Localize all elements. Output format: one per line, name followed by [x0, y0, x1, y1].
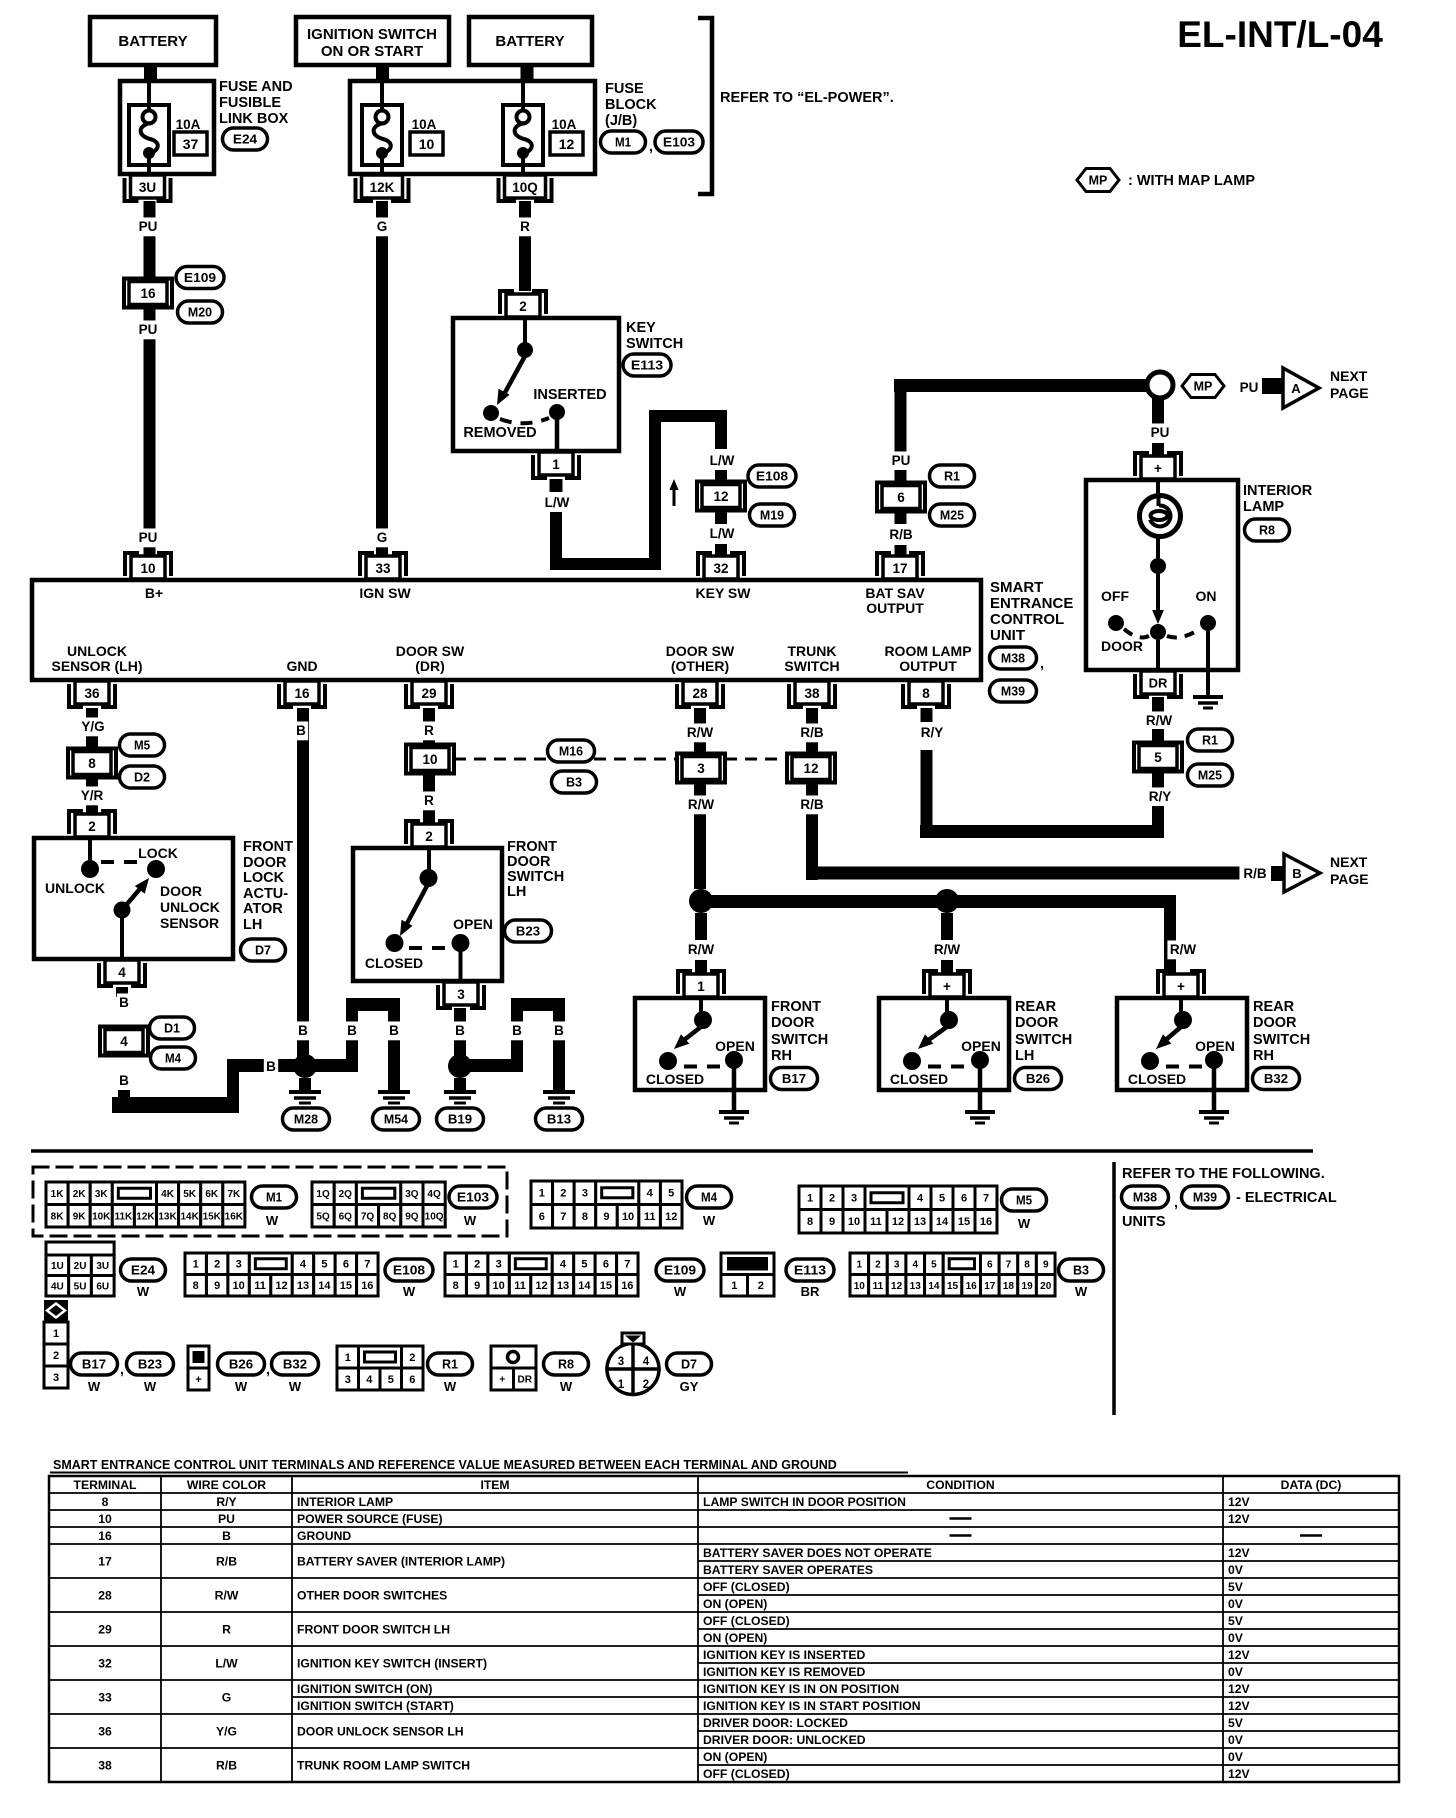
svg-text:12V: 12V [1228, 1495, 1251, 1509]
svg-text:R: R [520, 219, 530, 234]
svg-text:FRONT: FRONT [243, 839, 293, 855]
svg-text:DOOR: DOOR [1253, 1015, 1297, 1031]
svg-text:GND: GND [286, 658, 317, 674]
svg-text:,: , [649, 138, 653, 154]
svg-text:10: 10 [98, 1512, 112, 1526]
svg-text:11: 11 [254, 1280, 266, 1292]
svg-text:R/Y: R/Y [1149, 789, 1172, 804]
svg-text:12: 12 [891, 1281, 903, 1292]
svg-text:6K: 6K [205, 1189, 219, 1200]
svg-text:R/W: R/W [934, 942, 961, 957]
svg-text:DOOR UNLOCK SENSOR LH: DOOR UNLOCK SENSOR LH [297, 1725, 464, 1739]
svg-text:CLOSED: CLOSED [1128, 1071, 1186, 1087]
svg-text:GY: GY [680, 1379, 699, 1394]
svg-text:ROOM LAMP: ROOM LAMP [884, 643, 971, 659]
svg-text:1: 1 [857, 1259, 863, 1270]
svg-text:UNLOCK: UNLOCK [45, 880, 105, 896]
svg-text:8: 8 [922, 686, 930, 701]
svg-text:B13: B13 [547, 1112, 571, 1127]
svg-text:12V: 12V [1228, 1648, 1251, 1662]
svg-text:RH: RH [1253, 1048, 1274, 1064]
svg-text:REFER TO THE FOLLOWING.: REFER TO THE FOLLOWING. [1122, 1166, 1325, 1182]
svg-text:1: 1 [552, 457, 560, 472]
svg-text:FRONT: FRONT [771, 999, 821, 1015]
svg-text:12V: 12V [1228, 1767, 1251, 1781]
svg-text:2: 2 [425, 829, 433, 844]
svg-text:8K: 8K [51, 1211, 65, 1222]
svg-text:W: W [235, 1379, 248, 1394]
svg-text:G: G [377, 530, 388, 545]
svg-text:12V: 12V [1228, 1682, 1251, 1696]
svg-text:2: 2 [560, 1188, 566, 1200]
svg-text:9: 9 [603, 1211, 609, 1223]
svg-text:M5: M5 [134, 738, 150, 753]
svg-text:5: 5 [581, 1259, 587, 1271]
svg-text:SWITCH: SWITCH [626, 336, 683, 352]
svg-text:10: 10 [854, 1281, 866, 1292]
svg-text:D1: D1 [164, 1021, 180, 1036]
svg-text:PU: PU [1151, 425, 1170, 440]
svg-text:1: 1 [731, 1280, 737, 1292]
svg-text:SWITCH: SWITCH [507, 869, 564, 885]
svg-text:A: A [1291, 381, 1301, 396]
svg-text:M1: M1 [615, 135, 631, 150]
svg-text:12K: 12K [370, 180, 395, 195]
svg-text:6: 6 [987, 1259, 993, 1270]
svg-text:0V: 0V [1228, 1733, 1244, 1747]
svg-text:SWITCH: SWITCH [771, 1032, 828, 1048]
svg-text:D2: D2 [134, 770, 150, 785]
svg-text:32: 32 [98, 1657, 112, 1671]
svg-text:7: 7 [624, 1259, 630, 1271]
svg-text:7: 7 [1006, 1259, 1012, 1270]
svg-text:R8: R8 [558, 1357, 574, 1372]
svg-text:10Q: 10Q [512, 180, 538, 195]
svg-text:W: W [444, 1379, 457, 1394]
svg-text:M54: M54 [384, 1112, 409, 1127]
svg-text:1: 1 [697, 979, 705, 994]
svg-text:IGNITION SWITCH (START): IGNITION SWITCH (START) [297, 1699, 454, 1713]
svg-text:E109: E109 [664, 1263, 696, 1278]
svg-text:1: 1 [807, 1193, 813, 1205]
svg-text:ACTU-: ACTU- [243, 886, 288, 902]
svg-text:3Q: 3Q [405, 1189, 419, 1200]
svg-text:1: 1 [539, 1188, 545, 1200]
svg-text:DOOR SW: DOOR SW [396, 643, 465, 659]
svg-text:B32: B32 [283, 1357, 307, 1372]
svg-text:8: 8 [453, 1280, 459, 1292]
svg-text:3: 3 [697, 761, 705, 776]
svg-text:5V: 5V [1228, 1716, 1244, 1730]
svg-text:+: + [499, 1375, 505, 1386]
svg-text:15: 15 [340, 1280, 352, 1292]
svg-text:R/W: R/W [688, 942, 715, 957]
svg-text:14: 14 [578, 1280, 591, 1292]
svg-text:Y/G: Y/G [216, 1725, 237, 1739]
svg-text:R/B: R/B [800, 725, 824, 740]
svg-text:5: 5 [1154, 750, 1162, 765]
svg-text:33: 33 [98, 1691, 112, 1705]
svg-text:OPEN: OPEN [1195, 1038, 1235, 1054]
svg-text:12V: 12V [1228, 1512, 1251, 1526]
svg-text:R/W: R/W [215, 1589, 239, 1603]
svg-text:9Q: 9Q [405, 1211, 419, 1222]
svg-text:3K: 3K [95, 1189, 109, 1200]
svg-text:3: 3 [618, 1356, 624, 1368]
svg-text:W: W [674, 1284, 687, 1299]
svg-text:M28: M28 [294, 1112, 318, 1127]
svg-text:FUSIBLE: FUSIBLE [219, 95, 281, 111]
svg-text:B: B [455, 1023, 465, 1038]
svg-text:B3: B3 [566, 775, 582, 790]
svg-text:16: 16 [98, 1529, 112, 1543]
svg-text:BAT SAV: BAT SAV [865, 585, 925, 601]
svg-text:W: W [289, 1379, 302, 1394]
svg-text:1Q: 1Q [316, 1189, 330, 1200]
svg-text:B3: B3 [1073, 1263, 1089, 1278]
svg-text:11: 11 [870, 1216, 882, 1228]
svg-text:2: 2 [214, 1259, 220, 1271]
svg-text:0V: 0V [1228, 1597, 1244, 1611]
svg-text:W: W [464, 1213, 477, 1228]
svg-text:W: W [1018, 1216, 1031, 1231]
svg-text:18: 18 [1003, 1281, 1015, 1292]
svg-text:29: 29 [98, 1623, 112, 1637]
svg-text:R/Y: R/Y [216, 1495, 236, 1509]
svg-text:10: 10 [233, 1280, 245, 1292]
svg-text:R/Y: R/Y [921, 725, 944, 740]
svg-text:- ELECTRICAL: - ELECTRICAL [1236, 1190, 1337, 1206]
svg-text:M4: M4 [165, 1051, 182, 1066]
svg-text:W: W [703, 1213, 716, 1228]
svg-text:4: 4 [647, 1188, 654, 1200]
svg-text:0V: 0V [1228, 1563, 1244, 1577]
svg-text:INTERIOR LAMP: INTERIOR LAMP [297, 1495, 393, 1509]
svg-text:3: 3 [851, 1193, 857, 1205]
svg-text:6: 6 [409, 1374, 415, 1386]
svg-text:R/B: R/B [800, 797, 824, 812]
svg-text:R/B: R/B [1243, 866, 1267, 881]
svg-text:,: , [1174, 1194, 1178, 1210]
svg-text:PU: PU [1240, 380, 1259, 395]
svg-text:8: 8 [88, 756, 96, 771]
svg-text:POWER SOURCE (FUSE): POWER SOURCE (FUSE) [297, 1512, 443, 1526]
svg-text:B19: B19 [448, 1112, 472, 1127]
svg-text:CONDITION: CONDITION [926, 1478, 994, 1492]
svg-text:2: 2 [88, 819, 96, 834]
svg-text:SENSOR (LH): SENSOR (LH) [52, 658, 143, 674]
svg-text:OFF: OFF [1101, 588, 1129, 604]
svg-text:7: 7 [983, 1193, 989, 1205]
svg-text:D7: D7 [255, 943, 271, 958]
svg-text:16: 16 [140, 286, 156, 301]
svg-text:LH: LH [243, 917, 262, 933]
svg-text:OFF (CLOSED): OFF (CLOSED) [703, 1767, 790, 1781]
svg-text:0V: 0V [1228, 1665, 1244, 1679]
svg-text:2: 2 [53, 1350, 59, 1362]
svg-text:BLOCK: BLOCK [605, 97, 657, 113]
svg-text:5K: 5K [183, 1189, 197, 1200]
svg-text:9: 9 [214, 1280, 220, 1292]
svg-text:E109: E109 [184, 270, 216, 285]
svg-text:2: 2 [875, 1259, 881, 1270]
svg-text:5: 5 [939, 1193, 945, 1205]
svg-text:B: B [1292, 866, 1301, 881]
svg-text:LOCK: LOCK [138, 845, 178, 861]
svg-text:1: 1 [53, 1328, 59, 1340]
svg-text:4: 4 [120, 1034, 128, 1049]
svg-text:4: 4 [912, 1259, 918, 1270]
svg-text:29: 29 [421, 686, 436, 701]
svg-text:6: 6 [539, 1211, 545, 1223]
svg-text:16: 16 [966, 1281, 978, 1292]
svg-text:IGNITION KEY IS INSERTED: IGNITION KEY IS INSERTED [703, 1648, 865, 1662]
svg-text:B32: B32 [1264, 1071, 1288, 1086]
svg-text:LAMP: LAMP [1243, 499, 1284, 515]
svg-text:IGNITION KEY IS REMOVED: IGNITION KEY IS REMOVED [703, 1665, 865, 1679]
svg-text:E103: E103 [457, 1190, 489, 1205]
svg-text:BATTERY: BATTERY [495, 33, 564, 50]
svg-text:3: 3 [236, 1259, 242, 1271]
svg-text:REAR: REAR [1253, 999, 1295, 1015]
svg-text:ON OR START: ON OR START [321, 43, 423, 60]
svg-text:13: 13 [297, 1280, 309, 1292]
svg-text:B26: B26 [1026, 1071, 1050, 1086]
svg-text:15: 15 [958, 1216, 970, 1228]
svg-text:B: B [298, 1023, 308, 1038]
svg-text:7: 7 [560, 1211, 566, 1223]
svg-text:M39: M39 [1193, 1190, 1217, 1205]
svg-text:W: W [266, 1213, 279, 1228]
svg-text:E113: E113 [794, 1263, 826, 1278]
svg-text:PU: PU [139, 530, 158, 545]
svg-text:M16: M16 [559, 744, 583, 759]
svg-text:9: 9 [829, 1216, 835, 1228]
svg-text:4: 4 [366, 1374, 373, 1386]
svg-text:IGNITION KEY SWITCH (INSERT): IGNITION KEY SWITCH (INSERT) [297, 1657, 487, 1671]
svg-text:R/W: R/W [687, 725, 714, 740]
svg-text:6: 6 [343, 1259, 349, 1271]
svg-text:5Q: 5Q [316, 1211, 330, 1222]
svg-text:4: 4 [118, 965, 126, 980]
svg-text:R/W: R/W [688, 797, 715, 812]
svg-text:R/B: R/B [216, 1759, 237, 1773]
svg-text:4: 4 [917, 1193, 924, 1205]
svg-text:CONTROL: CONTROL [990, 611, 1064, 628]
svg-text:2: 2 [758, 1280, 764, 1292]
svg-text:E103: E103 [663, 135, 695, 150]
svg-text:LH: LH [507, 884, 526, 900]
svg-text:+: + [1154, 461, 1162, 476]
svg-text:4: 4 [560, 1259, 567, 1271]
svg-text:8: 8 [1024, 1259, 1030, 1270]
svg-text:UNLOCK: UNLOCK [67, 643, 127, 659]
svg-text:: WITH MAP LAMP: : WITH MAP LAMP [1128, 173, 1255, 189]
svg-text:12V: 12V [1228, 1699, 1251, 1713]
svg-text:11: 11 [514, 1280, 526, 1292]
svg-text:UNITS: UNITS [1122, 1214, 1166, 1230]
svg-text:NEXT: NEXT [1330, 854, 1368, 870]
svg-text:32: 32 [713, 561, 728, 576]
svg-text:12K: 12K [136, 1211, 155, 1222]
svg-text:B17: B17 [782, 1071, 806, 1086]
svg-text:12: 12 [892, 1216, 904, 1228]
svg-text:10: 10 [422, 752, 437, 767]
svg-text:INSERTED: INSERTED [533, 387, 606, 403]
svg-text:R1: R1 [944, 469, 960, 484]
svg-text:W: W [144, 1379, 157, 1394]
svg-text:R: R [424, 793, 434, 808]
svg-text:4Q: 4Q [427, 1189, 441, 1200]
svg-text:12: 12 [803, 761, 818, 776]
svg-text:6: 6 [961, 1193, 967, 1205]
svg-text:5: 5 [321, 1259, 327, 1271]
svg-text:13: 13 [557, 1280, 569, 1292]
svg-text:DOOR: DOOR [1015, 1015, 1059, 1031]
svg-text:W: W [403, 1284, 416, 1299]
svg-text:2: 2 [829, 1193, 835, 1205]
svg-text:R1: R1 [442, 1357, 458, 1372]
svg-text:R1: R1 [1202, 733, 1218, 748]
svg-text:2K: 2K [73, 1189, 87, 1200]
svg-text:W: W [88, 1379, 101, 1394]
svg-text:PU: PU [139, 219, 158, 234]
svg-text:17: 17 [892, 561, 907, 576]
svg-text:BR: BR [801, 1284, 820, 1299]
svg-text:8: 8 [193, 1280, 199, 1292]
svg-text:OFF (CLOSED): OFF (CLOSED) [703, 1614, 790, 1628]
svg-text:UNIT: UNIT [990, 627, 1025, 644]
svg-text:2U: 2U [74, 1261, 87, 1272]
svg-text:1: 1 [345, 1352, 351, 1364]
svg-text:1: 1 [193, 1259, 199, 1271]
svg-text:INTERIOR: INTERIOR [1243, 483, 1313, 499]
svg-text:6: 6 [603, 1259, 609, 1271]
svg-text:20: 20 [1040, 1281, 1052, 1292]
svg-text:4U: 4U [51, 1281, 64, 1292]
svg-text:10A: 10A [552, 117, 577, 132]
svg-text:DRIVER DOOR: LOCKED: DRIVER DOOR: LOCKED [703, 1716, 848, 1730]
svg-text:36: 36 [98, 1725, 112, 1739]
svg-text:W: W [560, 1379, 573, 1394]
svg-text:CLOSED: CLOSED [890, 1071, 948, 1087]
svg-text:1: 1 [453, 1259, 459, 1271]
svg-text:RH: RH [771, 1048, 792, 1064]
svg-text:15: 15 [947, 1281, 959, 1292]
svg-text:10Q: 10Q [425, 1211, 444, 1222]
svg-text:10: 10 [140, 561, 155, 576]
svg-text:FUSE: FUSE [605, 81, 644, 97]
svg-text:10: 10 [622, 1211, 634, 1223]
svg-text:PU: PU [139, 322, 158, 337]
svg-text:DOOR: DOOR [243, 855, 287, 871]
svg-text:B: B [266, 1059, 276, 1074]
svg-text:7: 7 [364, 1259, 370, 1271]
svg-text:L/W: L/W [545, 495, 570, 510]
svg-text:OFF (CLOSED): OFF (CLOSED) [703, 1580, 790, 1594]
svg-text:16: 16 [361, 1280, 373, 1292]
svg-text:13K: 13K [158, 1211, 177, 1222]
svg-text:3: 3 [894, 1259, 900, 1270]
svg-text:6: 6 [897, 490, 905, 505]
svg-text:OUTPUT: OUTPUT [866, 600, 924, 616]
svg-text:+: + [195, 1374, 201, 1386]
svg-text:7Q: 7Q [361, 1211, 375, 1222]
svg-text:,: , [1040, 655, 1044, 671]
svg-text:11: 11 [873, 1281, 884, 1292]
svg-text:38: 38 [98, 1759, 112, 1773]
svg-text:ENTRANCE: ENTRANCE [990, 595, 1073, 612]
svg-text:MP: MP [1194, 380, 1213, 394]
svg-text:3: 3 [345, 1374, 351, 1386]
svg-text:3: 3 [457, 987, 465, 1002]
svg-text:SMART: SMART [990, 579, 1043, 596]
svg-text:3U: 3U [139, 180, 156, 195]
svg-text:11K: 11K [114, 1211, 133, 1222]
svg-text:14K: 14K [180, 1211, 199, 1222]
svg-text:,: , [266, 1361, 270, 1377]
svg-text:TRUNK ROOM LAMP SWITCH: TRUNK ROOM LAMP SWITCH [297, 1759, 470, 1773]
svg-text:Y/R: Y/R [81, 788, 104, 803]
svg-text:36: 36 [84, 686, 100, 701]
svg-text:3U: 3U [96, 1261, 109, 1272]
svg-text:14: 14 [936, 1216, 949, 1228]
svg-text:EL-INT/L-04: EL-INT/L-04 [1177, 14, 1383, 55]
svg-text:B: B [554, 1023, 564, 1038]
svg-text:28: 28 [692, 686, 708, 701]
svg-text:8: 8 [582, 1211, 588, 1223]
svg-text:10: 10 [848, 1216, 860, 1228]
svg-text:37: 37 [183, 136, 199, 152]
svg-text:WIRE COLOR: WIRE COLOR [187, 1478, 266, 1492]
svg-text:DOOR: DOOR [771, 1015, 815, 1031]
svg-text:17: 17 [98, 1555, 112, 1569]
svg-text:BATTERY SAVER OPERATES: BATTERY SAVER OPERATES [703, 1563, 873, 1577]
svg-text:REMOVED: REMOVED [463, 425, 536, 441]
svg-text:LAMP SWITCH IN DOOR POSITION: LAMP SWITCH IN DOOR POSITION [703, 1495, 906, 1509]
svg-text:5: 5 [668, 1188, 674, 1200]
svg-text:ON (OPEN): ON (OPEN) [703, 1597, 767, 1611]
svg-text:12: 12 [535, 1280, 547, 1292]
svg-text:4: 4 [300, 1259, 307, 1271]
svg-text:14: 14 [318, 1280, 331, 1292]
svg-text:1K: 1K [51, 1189, 65, 1200]
svg-text:OTHER DOOR SWITCHES: OTHER DOOR SWITCHES [297, 1589, 447, 1603]
svg-text:IGNITION SWITCH (ON): IGNITION SWITCH (ON) [297, 1682, 432, 1696]
svg-text:M20: M20 [188, 305, 212, 320]
svg-text:5: 5 [388, 1374, 394, 1386]
svg-text:28: 28 [98, 1589, 112, 1603]
svg-text:REFER TO “EL-POWER”.: REFER TO “EL-POWER”. [720, 90, 894, 106]
svg-text:OUTPUT: OUTPUT [899, 658, 957, 674]
svg-text:13: 13 [910, 1281, 922, 1292]
svg-text:M39: M39 [1001, 684, 1025, 699]
svg-text:FRONT DOOR SWITCH LH: FRONT DOOR SWITCH LH [297, 1623, 450, 1637]
svg-text:E24: E24 [233, 132, 258, 147]
svg-text:KEY SW: KEY SW [696, 585, 752, 601]
svg-text:L/W: L/W [710, 526, 735, 541]
svg-text:ON (OPEN): ON (OPEN) [703, 1631, 767, 1645]
svg-text:MP: MP [1089, 174, 1108, 188]
svg-text:SWITCH: SWITCH [1015, 1032, 1072, 1048]
svg-text:M25: M25 [940, 508, 964, 523]
svg-text:13: 13 [914, 1216, 926, 1228]
svg-text:PU: PU [218, 1512, 235, 1526]
svg-text:E108: E108 [393, 1263, 425, 1278]
svg-text:16K: 16K [225, 1211, 244, 1222]
svg-text:DR: DR [1149, 676, 1168, 691]
svg-text:(J/B): (J/B) [605, 113, 637, 129]
